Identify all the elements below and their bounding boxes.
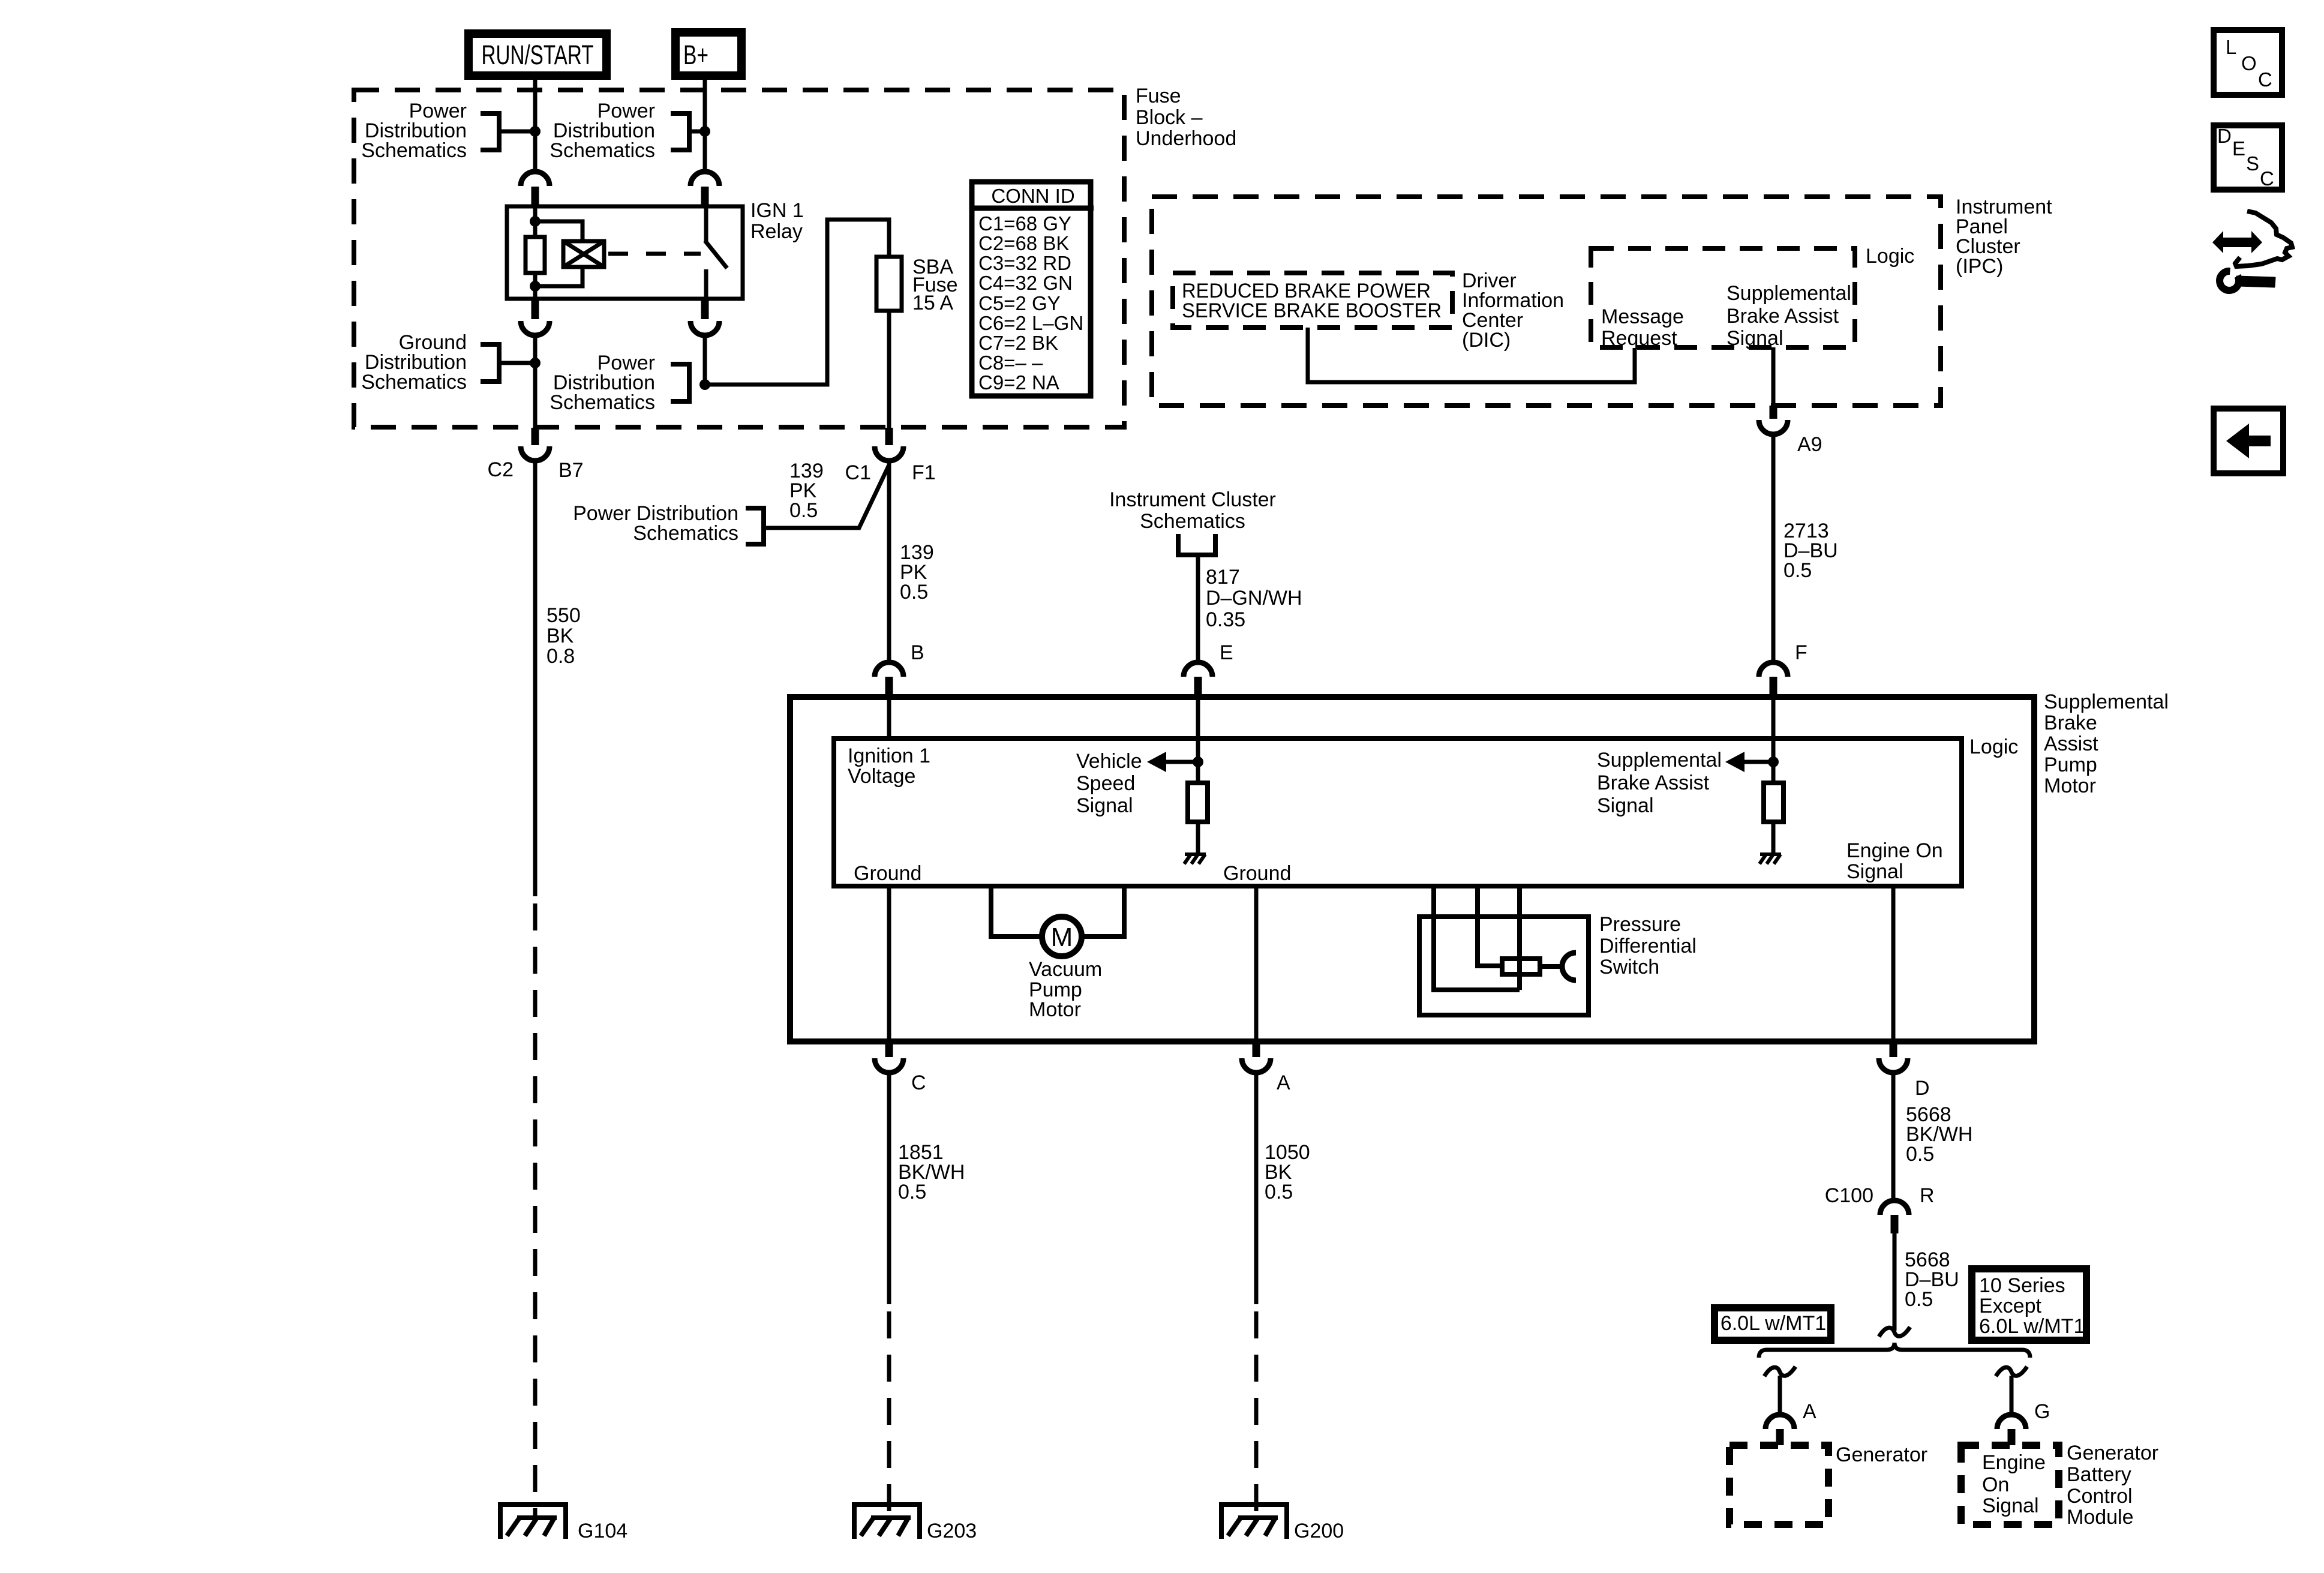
wire left branch <box>1778 1376 1782 1415</box>
connector F into pump motor box <box>1759 662 1788 677</box>
DESC icon box <box>2214 125 2282 190</box>
RUN/START box <box>469 34 606 76</box>
svg-text:Generator: Generator <box>2067 1442 2158 1464</box>
node dot vehicle speed <box>1193 757 1203 767</box>
fuse block - underhood dashed box <box>354 90 1124 427</box>
bracket lower power dist <box>671 364 689 401</box>
svg-text:C5=2 GY: C5=2 GY <box>978 292 1061 314</box>
svg-text:C2=68 BK: C2=68 BK <box>978 232 1069 254</box>
pds wire 1 <box>1434 886 1520 990</box>
svg-text:A9: A9 <box>1797 433 1822 456</box>
connector relay bottom-right <box>701 299 709 319</box>
bracket at C1 <box>746 508 764 544</box>
10 Series Except 6.0L w/MT1 box <box>1972 1269 2086 1340</box>
svg-text:0.5: 0.5 <box>1905 1288 1933 1311</box>
svg-text:Speed: Speed <box>1076 772 1135 795</box>
svg-text:On: On <box>1982 1473 2009 1496</box>
svg-text:Supplemental: Supplemental <box>2044 691 2169 713</box>
svg-text:0.5: 0.5 <box>900 581 928 604</box>
svg-text:C4=32 GN: C4=32 GN <box>978 272 1073 294</box>
ground G203 <box>854 1505 920 1539</box>
svg-text:D: D <box>1915 1077 1930 1100</box>
wire 550 BK solid part <box>533 461 538 896</box>
svg-text:Signal: Signal <box>1597 794 1654 817</box>
back arrow icon box <box>2214 409 2283 473</box>
svg-text:Signal: Signal <box>1727 327 1783 350</box>
wire relay-bottom-left to fuse block border <box>533 335 538 428</box>
svg-text:Pump: Pump <box>2044 754 2097 776</box>
B+ box <box>675 32 741 76</box>
IPC dashed box <box>1152 197 1941 406</box>
svg-text:B: B <box>911 641 924 664</box>
svg-text:Differential: Differential <box>1599 935 1697 957</box>
node dot B+ wire <box>699 126 710 137</box>
pump motor outer box <box>790 697 2034 1041</box>
svg-text:Ground: Ground <box>854 862 921 885</box>
wire 817 D-GN/WH <box>1196 555 1200 663</box>
wire B+ to relay <box>703 80 707 172</box>
svg-text:0.5: 0.5 <box>898 1181 926 1203</box>
wire resistor to ground <box>1771 822 1776 853</box>
svg-text:S: S <box>2246 152 2259 175</box>
relay actuator dashed line <box>608 252 701 256</box>
svg-text:Fuse: Fuse <box>1136 85 1181 107</box>
wire B inside box <box>887 697 891 739</box>
wire supplemental brake assist signal to A9 <box>1771 347 1776 406</box>
svg-text:G200: G200 <box>1294 1520 1344 1542</box>
wire 1050 solid <box>1254 1073 1259 1304</box>
connector C <box>885 1041 893 1057</box>
wire right branch <box>2010 1376 2014 1415</box>
svg-text:Instrument Cluster: Instrument Cluster <box>1109 488 1276 511</box>
svg-text:C: C <box>2260 167 2274 190</box>
svg-text:CONN ID: CONN ID <box>991 185 1074 207</box>
pds wire 2 <box>1478 886 1502 966</box>
svg-text:SERVICE BRAKE BOOSTER: SERVICE BRAKE BOOSTER <box>1182 299 1442 322</box>
pds contact arc <box>1562 953 1576 980</box>
relay coil resistor <box>533 206 538 237</box>
svg-text:F: F <box>1795 641 1807 664</box>
connector into relay top-right <box>690 172 719 186</box>
wire F inside box to junction <box>1771 697 1776 783</box>
bracket ground dist <box>481 344 499 382</box>
node dot B+ lower junction <box>699 379 710 390</box>
resistor vehicle speed <box>1188 783 1208 822</box>
break symbol on wire D <box>1879 1327 1910 1337</box>
brace <box>1759 1343 2030 1358</box>
svg-text:B7: B7 <box>559 459 584 482</box>
svg-text:Generator: Generator <box>1836 1443 1927 1466</box>
svg-text:C7=2 BK: C7=2 BK <box>978 332 1058 354</box>
svg-text:Underhood: Underhood <box>1136 127 1236 150</box>
wire 139 PK down to B <box>887 461 891 663</box>
svg-text:Module: Module <box>2067 1506 2134 1529</box>
relay solenoid coil (box with X) <box>535 221 582 241</box>
svg-text:L: L <box>2226 36 2236 58</box>
svg-text:E: E <box>1220 641 1233 664</box>
svg-text:(IPC): (IPC) <box>1956 255 2003 278</box>
svg-text:B+: B+ <box>683 40 708 70</box>
node dot ground dist <box>530 358 541 368</box>
svg-text:Schematics: Schematics <box>550 391 655 414</box>
svg-text:C8=– –: C8=– – <box>978 352 1043 374</box>
svg-text:Signal: Signal <box>1982 1494 2039 1517</box>
wire relay-bottom-right to junction <box>703 335 707 385</box>
svg-text:15 A: 15 A <box>912 292 953 314</box>
connector G <box>1997 1415 2026 1429</box>
svg-text:Motor: Motor <box>1029 998 1081 1021</box>
pds resistor <box>1502 959 1540 974</box>
svg-text:C1: C1 <box>845 461 871 484</box>
node dot relay coil bottom <box>530 281 541 292</box>
svg-text:Ground: Ground <box>1223 862 1291 885</box>
svg-text:(DIC): (DIC) <box>1462 329 1511 352</box>
wire 5668 BK/WH <box>1891 1073 1896 1201</box>
svg-text:G: G <box>2034 1400 2050 1423</box>
relay switch <box>704 206 708 241</box>
svg-text:A: A <box>1277 1071 1290 1094</box>
svg-text:Vehicle: Vehicle <box>1076 750 1142 773</box>
wire message request <box>1308 328 1635 382</box>
generator dashed box <box>1730 1445 1828 1524</box>
svg-text:6.0L w/MT1: 6.0L w/MT1 <box>1979 1315 2085 1338</box>
wire 550 BK dashed part <box>533 903 538 1516</box>
svg-text:F1: F1 <box>912 461 936 484</box>
motor circle M <box>1042 917 1082 956</box>
svg-text:Switch: Switch <box>1599 956 1659 978</box>
svg-text:IGN 1: IGN 1 <box>750 199 804 222</box>
bracket instrument cluster <box>1178 534 1215 555</box>
engine on signal dashed box <box>1961 1445 2059 1524</box>
svg-text:Pressure: Pressure <box>1599 913 1681 936</box>
svg-text:Schematics: Schematics <box>633 522 738 545</box>
IGN 1 relay box <box>507 206 743 299</box>
svg-text:Relay: Relay <box>750 220 803 243</box>
svg-text:C: C <box>2258 68 2272 91</box>
svg-text:Schematics: Schematics <box>550 139 655 162</box>
LOC icon box <box>2214 30 2282 95</box>
svg-text:D: D <box>2217 125 2232 147</box>
wire 5668 D-BU <box>1893 1233 1897 1331</box>
connector A <box>1253 1041 1260 1057</box>
wire ground A <box>1254 886 1259 1041</box>
svg-text:C2: C2 <box>488 458 514 481</box>
svg-text:Logic: Logic <box>1866 245 1914 268</box>
svg-text:0.5: 0.5 <box>789 499 818 522</box>
SBA fuse <box>876 257 902 311</box>
svg-text:Except: Except <box>1979 1295 2041 1317</box>
svg-text:C: C <box>911 1071 926 1094</box>
wire engine on D <box>1891 886 1896 1041</box>
svg-text:RUN/START: RUN/START <box>482 40 594 70</box>
connector D <box>1890 1041 1897 1057</box>
svg-text:10 Series: 10 Series <box>1979 1274 2065 1297</box>
svg-text:0.5: 0.5 <box>1906 1143 1934 1166</box>
svg-text:C6=2 L–GN: C6=2 L–GN <box>978 312 1083 334</box>
pressure differential switch box <box>1419 917 1589 1015</box>
svg-text:Supplemental: Supplemental <box>1597 749 1722 772</box>
wire RUN/START to relay <box>533 80 538 172</box>
svg-text:R: R <box>1920 1184 1935 1207</box>
connector B into pump motor box <box>875 662 903 677</box>
ground symbol (vehicle speed) <box>1184 854 1206 864</box>
svg-text:Supplemental: Supplemental <box>1727 282 1851 305</box>
connector C2/B7 <box>532 428 539 445</box>
svg-text:550: 550 <box>547 604 581 627</box>
svg-text:Ignition 1: Ignition 1 <box>848 745 930 767</box>
bracket B+ power dist <box>671 113 689 150</box>
svg-text:Signal: Signal <box>1846 860 1903 883</box>
svg-text:0.8: 0.8 <box>547 645 575 668</box>
svg-text:0.35: 0.35 <box>1206 608 1245 631</box>
svg-text:Voltage: Voltage <box>848 765 915 788</box>
arrow wrench icon <box>2212 211 2292 290</box>
svg-text:Block –: Block – <box>1136 106 1203 129</box>
pds wire 3 <box>1517 886 1522 990</box>
ground G104 <box>500 1505 566 1539</box>
svg-text:Brake Assist: Brake Assist <box>1727 305 1839 328</box>
logic inner box <box>834 739 1962 886</box>
svg-text:Vacuum: Vacuum <box>1029 958 1102 981</box>
svg-text:Schematics: Schematics <box>361 371 467 394</box>
svg-text:O: O <box>2241 52 2257 74</box>
connector A9 <box>1770 406 1777 419</box>
svg-text:D–GN/WH: D–GN/WH <box>1206 587 1302 610</box>
svg-text:Schematics: Schematics <box>1140 510 1245 533</box>
ground G200 <box>1221 1505 1287 1539</box>
break symbol right branch <box>1996 1367 2027 1376</box>
svg-text:817: 817 <box>1206 566 1240 589</box>
svg-text:G203: G203 <box>927 1520 977 1542</box>
node dot supplemental brake assist <box>1768 757 1779 767</box>
node dot relay coil top <box>530 216 541 227</box>
connector A (generator) <box>1765 1415 1794 1429</box>
arrow supplemental brake assist <box>1743 760 1773 764</box>
svg-text:C100: C100 <box>1825 1184 1873 1207</box>
wire resistor to ground <box>1196 822 1200 853</box>
wire ground C <box>887 886 891 1041</box>
6.0L w/MT1 box <box>1715 1308 1831 1340</box>
break symbol left branch <box>1764 1367 1795 1376</box>
svg-text:G104: G104 <box>578 1520 627 1542</box>
wire 2713 D-BU <box>1771 434 1776 663</box>
svg-text:Signal: Signal <box>1076 794 1133 817</box>
svg-text:Logic: Logic <box>1969 736 2018 758</box>
svg-text:C1=68 GY: C1=68 GY <box>978 212 1071 235</box>
vacuum pump motor branch <box>991 886 1042 936</box>
svg-text:E: E <box>2232 137 2245 160</box>
svg-text:0.5: 0.5 <box>1265 1181 1293 1203</box>
REDUCED BRAKE POWER dashed box <box>1173 273 1452 328</box>
svg-text:Message: Message <box>1601 305 1684 328</box>
connector C1/F1 <box>885 428 893 445</box>
wire 1851 dashed <box>887 1311 891 1516</box>
conn id table frame <box>972 182 1091 396</box>
svg-text:M: M <box>1051 923 1073 952</box>
svg-text:Engine: Engine <box>1982 1451 2046 1474</box>
svg-text:Request: Request <box>1601 327 1677 350</box>
svg-text:BK: BK <box>547 625 574 647</box>
svg-text:Brake Assist: Brake Assist <box>1597 772 1710 794</box>
bracket left power dist <box>481 113 499 150</box>
wire E inside box to junction <box>1196 697 1200 783</box>
svg-text:Engine On: Engine On <box>1846 839 1943 862</box>
connector E into pump motor box <box>1184 662 1212 677</box>
svg-text:A: A <box>1803 1400 1816 1423</box>
wire 1851 solid <box>887 1073 891 1304</box>
ground symbol (supplemental) <box>1759 854 1781 864</box>
connector relay bottom-left <box>532 299 539 319</box>
pds wire to contact <box>1540 964 1563 969</box>
svg-text:Assist: Assist <box>2044 733 2098 755</box>
node dot run/start wire <box>530 126 541 137</box>
svg-text:C3=32 RD: C3=32 RD <box>978 252 1071 274</box>
svg-text:Brake: Brake <box>2044 712 2097 734</box>
wire junction to SBA fuse <box>705 220 889 385</box>
svg-text:Schematics: Schematics <box>361 139 467 162</box>
wire bracket to C1 diagonal <box>764 465 889 528</box>
wire 1050 dashed <box>1254 1311 1259 1516</box>
arrow vehicle speed signal <box>1165 760 1198 764</box>
svg-text:0.5: 0.5 <box>1783 559 1812 582</box>
connector into relay top-left <box>521 172 550 186</box>
wire fuse to border <box>887 311 891 428</box>
svg-text:Battery: Battery <box>2067 1463 2131 1486</box>
svg-text:C9=2 NA: C9=2 NA <box>978 371 1059 394</box>
svg-text:6.0L w/MT1: 6.0L w/MT1 <box>1721 1312 1826 1335</box>
svg-text:Motor: Motor <box>2044 775 2096 797</box>
IPC logic dashed box <box>1591 248 1855 347</box>
connector C100 / R <box>1880 1200 1909 1215</box>
resistor supplemental brake assist <box>1764 783 1783 822</box>
svg-text:Control: Control <box>2067 1485 2133 1508</box>
